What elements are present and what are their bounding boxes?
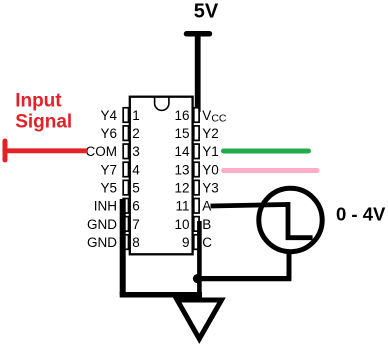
svg-text:Y6: Y6 [100, 126, 117, 141]
pin 10 pad [194, 217, 199, 232]
wire 5V to VCC pin 16 [195, 34, 201, 112]
input terminal bar [3, 141, 8, 160]
svg-text:Signal: Signal [15, 112, 72, 133]
pin 3 pad [123, 144, 128, 159]
5V supply bar [187, 31, 210, 37]
svg-text:5: 5 [132, 181, 140, 196]
svg-text:12: 12 [174, 181, 189, 196]
source V1 circle [259, 188, 322, 251]
svg-text:COM: COM [86, 144, 118, 159]
svg-text:6: 6 [132, 199, 140, 214]
svg-text:GND: GND [87, 235, 117, 250]
pin 4 pad [123, 162, 128, 177]
wire B/C pins down to ground [197, 221, 202, 298]
pin 11 pad [194, 199, 199, 214]
svg-text:1: 1 [132, 108, 140, 123]
svg-text:15: 15 [174, 126, 189, 141]
wire INH/GND pins down [120, 199, 126, 295]
pin 13 pad [194, 162, 199, 177]
wire ground rail left [120, 292, 202, 298]
svg-text:GND: GND [87, 217, 117, 232]
svg-text:Y1: Y1 [202, 144, 219, 159]
svg-text:5V: 5V [194, 1, 219, 23]
svg-text:14: 14 [174, 144, 190, 159]
svg-text:A: A [202, 199, 211, 214]
wire ground rail right [197, 276, 291, 281]
IC notch [155, 97, 169, 111]
pin 8 pad [123, 235, 128, 250]
svg-text:C: C [202, 235, 212, 250]
svg-text:B: B [202, 217, 211, 232]
pin 14 pad [194, 144, 199, 159]
ground symbol [177, 300, 221, 339]
pin 9 pad [194, 235, 199, 250]
svg-text:Y7: Y7 [100, 162, 117, 177]
svg-text:10: 10 [174, 217, 189, 232]
svg-text:7: 7 [132, 217, 140, 232]
svg-text:4: 4 [132, 162, 140, 177]
pin 16 pad [194, 108, 199, 123]
pin 6 pad [123, 199, 128, 214]
wire Y1 output (green) [224, 149, 309, 154]
pin 1 pad [123, 108, 128, 123]
wire input signal to COM [4, 148, 87, 153]
svg-text:16: 16 [174, 108, 189, 123]
svg-text:13: 13 [174, 162, 189, 177]
pin 7 pad [123, 217, 128, 232]
svg-text:8: 8 [132, 235, 140, 250]
svg-text:3: 3 [132, 144, 140, 159]
junction dot [193, 274, 202, 283]
svg-text:Y0: Y0 [202, 162, 219, 177]
svg-text:9: 9 [182, 235, 190, 250]
svg-text:0 - 4V: 0 - 4V [336, 204, 386, 225]
svg-text:Y3: Y3 [202, 181, 219, 196]
pin 2 pad [123, 126, 128, 140]
pin 5 pad [123, 180, 128, 195]
svg-text:Input: Input [15, 90, 62, 111]
svg-text:Y4: Y4 [100, 108, 117, 123]
svg-text:INH: INH [94, 199, 117, 214]
svg-text:11: 11 [175, 199, 189, 214]
IC U1 body [130, 97, 193, 255]
svg-text:Y5: Y5 [100, 181, 117, 196]
wire Y0 output (pink) [224, 168, 318, 173]
pin 15 pad [194, 126, 199, 140]
wire A to source + step waveform [211, 205, 313, 238]
wire source bottom [287, 250, 292, 279]
svg-text:2: 2 [132, 126, 140, 141]
svg-text:Y2: Y2 [202, 126, 219, 141]
pin 12 pad [194, 180, 199, 195]
